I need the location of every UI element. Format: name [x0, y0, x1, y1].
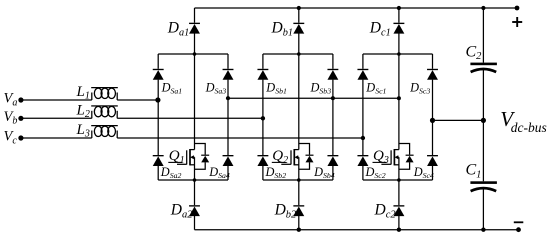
- wire bridge a right branch middle: [227, 80, 229, 155]
- wire bridge b right branch lower: [332, 166, 334, 180]
- wire leg c center from bridge top rail to Q3 drain: [398, 54, 400, 144]
- wire bridge c right branch middle: [432, 80, 434, 155]
- label - terminal: [514, 221, 524, 223]
- diode Da2: [189, 205, 200, 216]
- wire phase b from Vb to L2: [21, 117, 92, 119]
- wire Dc2 to bottom rail: [398, 216, 400, 230]
- wire capacitor branch from top rail to C2: [482, 8, 484, 63]
- wire Db1 to bridge top rail: [298, 34, 300, 55]
- diode Q3 body diode: [406, 155, 414, 163]
- wire bridge b top rail: [263, 53, 333, 55]
- wire bridge b left branch lower: [262, 166, 264, 180]
- diode DSb2: [257, 155, 268, 166]
- wire leg a center from bridge bottom rail to Da2: [194, 180, 196, 205]
- diode Dc1: [393, 23, 404, 34]
- wire bridge a left branch middle: [157, 80, 159, 155]
- wire bridge b right branch middle: [332, 80, 334, 155]
- diode DSa1: [153, 69, 164, 80]
- node bridge b bottom center junction: [297, 178, 301, 182]
- node midpoint bus junction leg a right branch: [226, 96, 230, 100]
- node midpoint bus junction leg c center: [397, 96, 401, 100]
- capacitor C1: [470, 181, 497, 191]
- node midpoint bus junction leg b right branch: [331, 96, 335, 100]
- wire leg b center from bridge bottom rail to Db2: [298, 180, 300, 205]
- diode DSa2: [153, 155, 164, 166]
- diode Da1: [189, 23, 200, 34]
- node Vc input terminal: [18, 135, 23, 140]
- node Vb input terminal: [18, 116, 23, 121]
- inductor L1: [91, 87, 118, 100]
- wire leg c center from bridge bottom rail to Dc2: [398, 180, 400, 205]
- wire leg a center from bridge top rail to Q1 drain: [194, 54, 196, 144]
- diode Db1: [293, 23, 304, 34]
- diode Dc2: [393, 205, 404, 216]
- wire Db2 to bottom rail: [298, 216, 300, 230]
- wire bridge a left branch lower: [157, 166, 159, 180]
- transistor Q1: [177, 144, 205, 181]
- wire phase c from Vc to L3: [21, 137, 92, 139]
- wire bottom DC- rail: [195, 229, 519, 231]
- node Va input terminal: [18, 97, 23, 102]
- wire bridge c top rail: [363, 53, 433, 55]
- svg-text:dc-bus: dc-bus: [511, 120, 547, 135]
- node phase b junction on leg b left branch: [261, 116, 265, 120]
- diode DSb4: [327, 155, 338, 166]
- diode DSc3: [427, 69, 438, 80]
- wire leg c center from top rail to Dc1: [398, 8, 400, 23]
- wire bridge a bottom rail: [158, 179, 228, 181]
- wire phase b from L2 to bridge: [117, 117, 263, 119]
- node capacitor branch bottom rail junction: [481, 228, 485, 232]
- wire Dc1 to bridge top rail: [398, 34, 400, 55]
- wire bridge c left branch lower: [362, 166, 364, 180]
- wire bridge a right branch lower: [227, 166, 229, 180]
- wire phase c from L3 to bridge: [117, 137, 363, 139]
- inductor L2: [91, 105, 118, 118]
- diode DSc1: [357, 69, 368, 80]
- diode DSb1: [257, 69, 268, 80]
- wire bridge c right branch lower: [432, 166, 434, 180]
- node leg b top rail junction: [297, 6, 301, 10]
- node capacitor branch top rail junction: [481, 6, 485, 10]
- wire bridge a right branch upper: [227, 54, 229, 69]
- diode Q2 body diode: [306, 155, 314, 163]
- wire bridge b left branch middle: [262, 80, 264, 155]
- node bridge a top center junction: [193, 52, 197, 56]
- wire DC midpoint link (leg c right branch to capacitor midpoint): [433, 119, 484, 121]
- diode DSc2: [357, 155, 368, 166]
- wire bridge c right branch upper: [432, 54, 434, 69]
- diode DSa3: [223, 69, 234, 80]
- wire bridge c left branch middle: [362, 80, 364, 155]
- node bridge c top center junction: [397, 52, 401, 56]
- wire leg a center from top rail to Da1: [194, 8, 196, 23]
- node DC- terminal: [516, 227, 521, 232]
- wire phase a from L1 to bridge: [117, 99, 158, 101]
- diode Db2: [293, 205, 304, 216]
- diode DSb3: [327, 69, 338, 80]
- label + terminal: [512, 17, 522, 27]
- wire bridge c bottom rail: [363, 179, 433, 181]
- wire leg b center from top rail to Db1: [298, 8, 300, 23]
- wire bridge c left branch upper: [362, 54, 364, 69]
- wire bridge b bottom rail: [263, 179, 333, 181]
- node bridge b top center junction: [297, 52, 301, 56]
- inductor L3: [91, 125, 118, 138]
- node leg c top rail junction: [397, 6, 401, 10]
- node phase c junction on leg c left branch: [361, 136, 365, 140]
- wire bridge b right branch upper: [332, 54, 334, 69]
- transistor Q2: [281, 144, 309, 181]
- wire C1 to bottom rail: [482, 189, 484, 230]
- wire DC midpoint to C1: [482, 120, 484, 181]
- wire right-branch midpoint bus (legs a,b to leg c center): [228, 97, 399, 99]
- wire top DC+ rail: [195, 7, 518, 9]
- diode DSa4: [223, 155, 234, 166]
- wire Da2 to bottom rail: [194, 216, 196, 230]
- node DC+ terminal: [515, 6, 520, 11]
- wire bridge a left branch upper: [157, 54, 159, 69]
- node bridge c bottom center junction: [397, 178, 401, 182]
- wire leg b center from bridge top rail to Q2 drain: [298, 54, 300, 144]
- node leg c bottom rail junction: [397, 228, 401, 232]
- diode Q1 body diode: [201, 155, 209, 163]
- wire bridge b left branch upper: [262, 54, 264, 69]
- diode DSc4: [427, 155, 438, 166]
- node leg b bottom rail junction: [297, 228, 301, 232]
- wire phase a from Va to L1: [21, 99, 92, 101]
- wire C2 to DC midpoint: [482, 70, 484, 121]
- node DC midpoint junction on capacitor branch: [481, 118, 486, 123]
- capacitor C2: [470, 63, 497, 72]
- transistor Q3: [381, 144, 409, 181]
- wire Da1 to bridge top rail: [194, 34, 196, 55]
- node phase a junction on leg a left branch: [155, 97, 160, 102]
- label Vdc-bus: [500, 107, 547, 135]
- node DC midpoint junction on leg c right branch: [430, 118, 435, 123]
- node bridge a bottom center junction: [193, 178, 197, 182]
- wire bridge a top rail: [158, 53, 228, 55]
